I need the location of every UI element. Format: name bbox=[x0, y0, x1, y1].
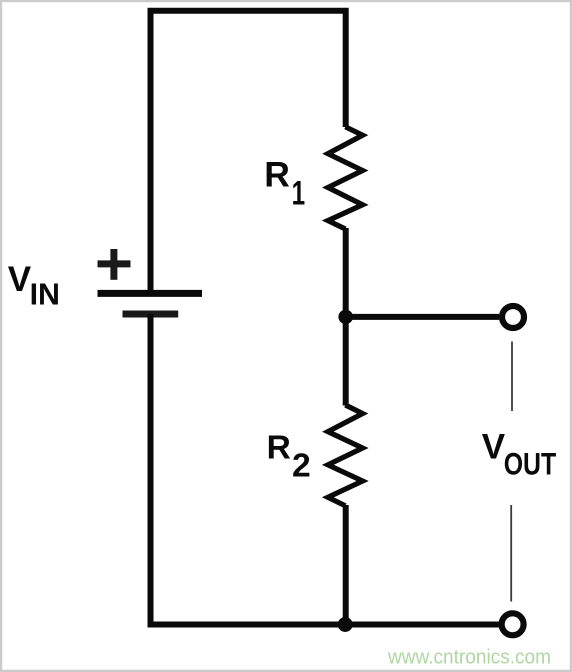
svg-text:www.cntronics.com: www.cntronics.com bbox=[387, 645, 551, 668]
svg-text:R: R bbox=[267, 430, 291, 467]
svg-text:R: R bbox=[264, 155, 290, 195]
svg-text:IN: IN bbox=[30, 278, 60, 312]
svg-text:1: 1 bbox=[292, 174, 306, 212]
svg-text:OUT: OUT bbox=[504, 446, 557, 482]
svg-text:V: V bbox=[482, 428, 506, 467]
svg-text:V: V bbox=[8, 260, 32, 299]
svg-text:2: 2 bbox=[292, 446, 311, 484]
